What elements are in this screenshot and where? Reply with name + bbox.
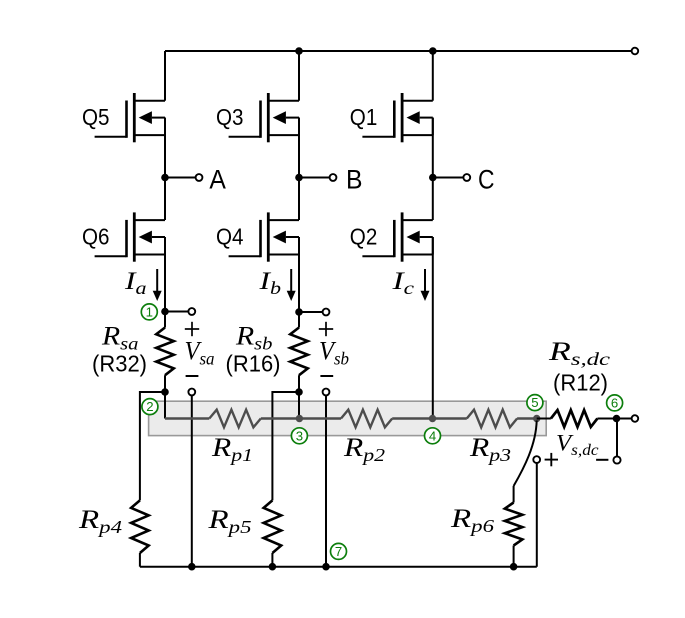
wire: phase A output stub [165, 177, 196, 179]
node 3 circled label [291, 428, 307, 444]
transistor Q3 (NMOS) [229, 93, 299, 142]
resistor Rp1 [209, 410, 260, 428]
wire: bottom ground rail [140, 566, 537, 568]
terminal: DC- open circle [632, 415, 639, 422]
transistor Q2 (NMOS) [362, 212, 432, 261]
resistor Rp5 [264, 500, 282, 553]
wire: positive DC rail [165, 50, 632, 52]
wire: Vsa+ sense stub [165, 311, 189, 313]
svg-text:Q6: Q6 [82, 223, 110, 249]
wire: leg B lower FET source down to Rsb top [298, 237, 300, 328]
wire: bus segment Rp3-node5 [517, 417, 537, 419]
svg-text:A: A [209, 164, 226, 194]
wire: node 2 left and down to Rp4 [140, 392, 165, 500]
junction dot: Rp6 at rail [510, 563, 518, 571]
terminal: phase C open circle [463, 174, 470, 181]
resistor Rp3 [467, 410, 517, 428]
svg-text:Q3: Q3 [216, 104, 244, 130]
transistor Q1 (NMOS) [362, 93, 432, 142]
node 7 circled label [331, 543, 347, 559]
terminal: Vsb+ open circle [323, 309, 330, 316]
wire: leg A rail to upper FET drain [164, 51, 166, 101]
terminal: phase B open circle [330, 174, 337, 181]
node 2 junction dot [161, 388, 169, 396]
node 1 junction dot [161, 308, 169, 316]
resistor Rp6 [513, 486, 515, 503]
terminal: Vsa- open circle [188, 389, 195, 396]
wire: phase C output stub [433, 177, 464, 179]
resistor Rp2 [341, 410, 392, 428]
node 6 junction dot [613, 415, 621, 423]
junction dot: Vsa- at rail [188, 563, 196, 571]
wire: Vs,dc- sense drop from node 6 [616, 419, 618, 457]
wire: Rp6 bottom to ground rail [513, 546, 515, 567]
wire: node5 to Rs,dc [537, 418, 551, 420]
junction dot: phase C [429, 174, 437, 182]
wire: leg C rail to upper FET drain [432, 51, 434, 101]
wire: phase B output stub [299, 177, 330, 179]
svg-text:7: 7 [335, 544, 342, 559]
wire: node 2 down into bus [164, 392, 166, 419]
node 7 junction dot [322, 563, 330, 571]
wire: bus segment Rp1-node3-Rp2 [261, 417, 341, 419]
svg-text:6: 6 [611, 395, 618, 410]
resistor Rsa (shunt R32) [156, 328, 174, 376]
svg-text:4: 4 [429, 428, 436, 443]
junction dot: rail leg B [295, 47, 303, 55]
terminal: Vs,dc- open circle [613, 456, 620, 463]
wire: Vsa- sense line down to ground rail [191, 395, 193, 566]
wire: Rsb bottom junction down to bus node 3 [298, 375, 300, 418]
wire: Rsa bottom to node 2 [164, 375, 166, 392]
svg-text:1: 1 [146, 304, 153, 319]
node 6 circled label [607, 395, 623, 411]
node: Rsb bottom junction dot [295, 388, 303, 396]
wire: leg A lower FET source down to node 1 and Rsa top [164, 237, 166, 328]
current arrow I_a [156, 269, 158, 293]
node 4 circled label [425, 428, 441, 444]
svg-text:2: 2 [146, 399, 153, 414]
junction dot: rail leg C [429, 47, 437, 55]
svg-text:Q4: Q4 [216, 223, 244, 249]
resistor Rp4 [131, 500, 149, 553]
wire: bus segment Rp2-node4-Rp3 [392, 417, 467, 419]
terminal: Vsb- open circle [323, 389, 330, 396]
wire: node5 curve down to Rp6 [514, 421, 537, 487]
wire: leg C lower FET source straight down to bus node 4 [432, 237, 434, 419]
junction dot: Rp5 at rail [269, 563, 277, 571]
svg-text:Q2: Q2 [350, 223, 378, 249]
node 1 circled label [141, 304, 157, 320]
svg-text:C: C [478, 164, 495, 194]
current arrow I_b [290, 269, 292, 293]
wire: leg C upper FET source to lower FET drain (phase node) [432, 118, 434, 220]
svg-text:(R12): (R12) [553, 369, 608, 395]
svg-text:Q5: Q5 [82, 104, 110, 130]
parasitic ground-plane bus highlight band [149, 401, 547, 435]
wire: leg B upper FET source to lower FET drain (phase node) [298, 118, 300, 220]
wire: Vsb+ sense stub [299, 311, 323, 313]
node 5 circled label [527, 395, 543, 411]
svg-text:5: 5 [531, 395, 538, 410]
wire: Rs,dc to DC- terminal [597, 418, 631, 420]
wire: Rp4 bottom to ground rail [139, 553, 141, 567]
node: Rsb top junction dot [295, 308, 303, 316]
svg-text:B: B [346, 164, 363, 194]
resistor Rs,dc (shunt R12) [551, 410, 598, 427]
transistor Q6 (NMOS) [95, 212, 165, 261]
wire: leg A upper FET source to lower FET drain (phase node) [164, 118, 166, 220]
transistor Q4 (NMOS) [229, 212, 299, 261]
terminal: DC+ open circle [632, 48, 639, 55]
wire: Vs,dc+ sense line down and ground rail right end [536, 463, 538, 566]
wire: Rp5 bottom to ground rail [271, 553, 273, 567]
svg-text:Q1: Q1 [350, 104, 378, 130]
current arrow I_c [424, 269, 426, 293]
junction dot: phase B [295, 174, 303, 182]
node 2 circled label [142, 399, 158, 415]
junction dot: phase A [161, 174, 169, 182]
wire: leg B rail to upper FET drain [298, 51, 300, 101]
wire: Rsb bottom left and down to Rp5 [272, 392, 299, 500]
wire: bus segment node2-Rp1 [165, 417, 209, 419]
resistor Rsb (shunt R16) [290, 328, 308, 376]
node 5 dot [533, 415, 540, 422]
svg-text:(R32): (R32) [92, 350, 147, 376]
wire: Vsb- sense line down to node 7 on ground rail [325, 395, 327, 566]
svg-text:(R16): (R16) [226, 350, 281, 376]
svg-text:3: 3 [296, 428, 303, 443]
node 3 dot [296, 415, 303, 422]
terminal: phase A open circle [196, 174, 203, 181]
node 4 dot [429, 415, 436, 422]
terminal: Vs,dc+ open circle [533, 456, 540, 463]
terminal: Vsa+ open circle [188, 308, 195, 315]
transistor Q5 (NMOS) [95, 93, 165, 142]
